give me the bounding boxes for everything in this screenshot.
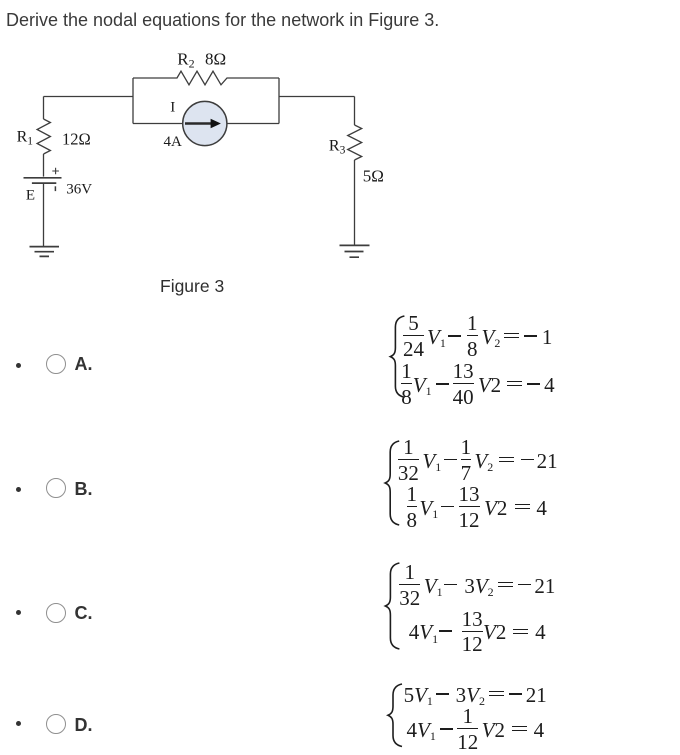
brace option A: [390, 316, 404, 397]
wire battery to ground: [43, 184, 45, 246]
svg-text:E: E: [26, 187, 35, 203]
resistor R1: [37, 119, 50, 154]
option C: [16, 610, 21, 615]
equations option A: [403, 313, 552, 359]
wire R1 to battery: [43, 154, 45, 177]
svg-text:5Ω: 5Ω: [363, 167, 384, 186]
current source I 4A: [183, 101, 227, 145]
ground (left): [30, 247, 60, 257]
brace option B: [385, 441, 399, 525]
battery plus sign: [52, 168, 59, 175]
battery E positive plate: [24, 177, 62, 179]
svg-text:R2: R2: [177, 49, 194, 70]
wire R3 to ground: [354, 160, 356, 245]
svg-text:R1: R1: [17, 128, 34, 147]
parallel block right wire: [278, 78, 280, 124]
wire top-left horizontal (node 1 to parallel block): [44, 96, 134, 98]
svg-text:36V: 36V: [66, 182, 92, 198]
wire right horizontal (parallel block to node 2): [279, 96, 355, 98]
svg-text:12Ω: 12Ω: [62, 130, 91, 149]
svg-text:I: I: [170, 100, 175, 116]
ground (right): [340, 245, 370, 257]
option D: [16, 721, 21, 726]
parallel block left wire: [132, 78, 134, 124]
battery E negative plate: [32, 182, 56, 184]
equations option B: [398, 437, 558, 483]
option A: [16, 363, 21, 368]
parallel block bottom wire through current source: [133, 123, 279, 125]
brace option D: [388, 684, 402, 747]
svg-text:4A: 4A: [164, 134, 183, 150]
parallel block rectangle top wire with resistor R2: [133, 71, 279, 85]
svg-text:R3: R3: [329, 138, 346, 157]
brace option C: [385, 563, 399, 649]
wire right vertical (node 2 down to R3): [354, 97, 356, 126]
option B: [16, 487, 21, 492]
equations option C: [399, 562, 555, 608]
wire left vertical (node 1 down to R1): [43, 97, 45, 120]
battery minus tick: [54, 186, 56, 191]
svg-text:8Ω: 8Ω: [205, 49, 226, 68]
resistor R3: [348, 125, 362, 160]
equations option D: [404, 671, 547, 717]
